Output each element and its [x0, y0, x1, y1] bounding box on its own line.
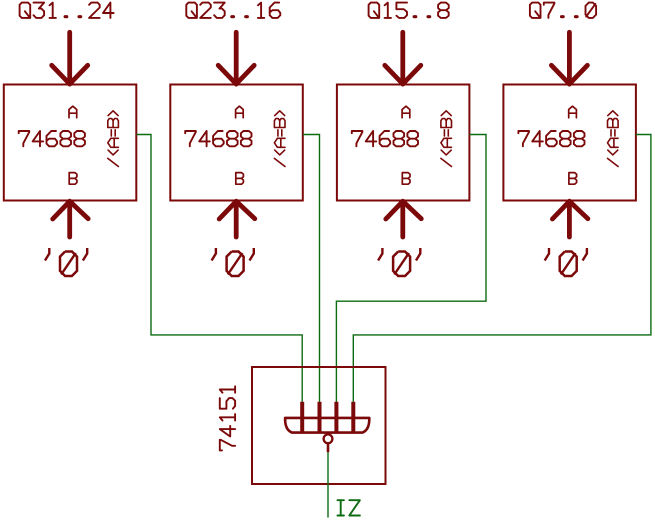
- constant '0' label: [378, 248, 382, 261]
- comparator U2 74688 box: [170, 85, 302, 201]
- pin label /(A=B): [108, 158, 119, 166]
- mux input pin D2: [334, 402, 338, 433]
- constant '0' label: [545, 248, 549, 261]
- part value 74688: [352, 131, 363, 146]
- pin label B: [69, 173, 77, 185]
- part value 74688: [19, 131, 30, 146]
- comparator U4 74688 box: [503, 85, 636, 201]
- mux input pin D0: [300, 402, 304, 433]
- wire arrow into B bus of U3: [400, 201, 405, 237]
- wire arrow into A bus of U3: [400, 32, 405, 84]
- wire net from U3 /(A=B) to mux D2: [336, 135, 486, 403]
- wire net IZ output: [327, 452, 329, 517]
- wire arrow into B bus of U1: [67, 201, 72, 237]
- pin label B: [402, 173, 410, 185]
- wire net from U2 /(A=B) to mux D1: [303, 135, 320, 403]
- multiplexer U5 74151 box: [252, 367, 386, 484]
- pin label B: [236, 173, 244, 185]
- net label Q23..16: [186, 3, 197, 18]
- pin label /(A=B): [608, 158, 619, 166]
- net label Q15..8: [369, 3, 380, 18]
- wire arrow into B bus of U4: [567, 201, 572, 237]
- pin label A: [236, 106, 244, 118]
- wire arrow into A bus of U4: [567, 32, 572, 84]
- part value 74688: [518, 131, 529, 146]
- wire arrow into A bus of U1: [67, 32, 72, 84]
- part value 74688: [185, 131, 196, 146]
- wire net from U1 /(A=B) to mux D0: [136, 135, 302, 403]
- output pin stub: [327, 443, 330, 452]
- wire arrow into A bus of U2: [234, 32, 239, 84]
- constant '0' label: [45, 248, 49, 261]
- wire arrow into B bus of U2: [234, 201, 239, 237]
- wire net from U4 /(A=B) to mux D3: [353, 135, 651, 403]
- pin label /(A=B): [441, 158, 452, 166]
- net label Q7..0: [530, 3, 541, 18]
- mux input pin D1: [318, 402, 322, 433]
- comparator U1 74688 box: [4, 85, 137, 201]
- pin label A: [569, 106, 577, 118]
- pin label A: [402, 106, 410, 118]
- pin label A: [69, 106, 77, 118]
- mux body symbol: [285, 418, 369, 433]
- net label Q31..24: [20, 3, 31, 18]
- comparator U3 74688 box: [337, 85, 470, 201]
- pin label B: [569, 173, 577, 185]
- pin label /(A=B): [274, 158, 285, 166]
- part value 74151 (rotated): [220, 440, 235, 451]
- net label IZ: [338, 500, 344, 515]
- mux input pin D3: [351, 402, 355, 433]
- constant '0' label: [212, 248, 216, 261]
- inverting output bubble: [324, 434, 333, 443]
